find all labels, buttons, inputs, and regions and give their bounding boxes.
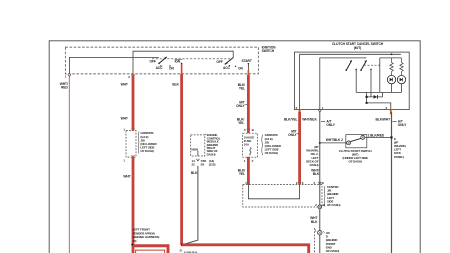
wire WHT/BLK through J/B xyxy=(319,185,321,253)
wire BLK/YEL lower xyxy=(238,157,249,185)
fuse bracket text (J/B) xyxy=(262,133,282,155)
svg-text:OF DASH): OF DASH) xyxy=(326,249,339,253)
harness note left of WHT/BLK xyxy=(306,145,325,185)
resistor rail left xyxy=(380,58,402,93)
svg-text:22: 22 xyxy=(192,162,196,166)
svg-text:DASH): DASH) xyxy=(207,152,216,156)
contact drops xyxy=(355,69,371,97)
svg-text:OF DASH): OF DASH) xyxy=(140,149,153,153)
wire BLK from ECM xyxy=(184,166,198,245)
in-line connector on WHT wire xyxy=(123,128,136,163)
junction at J/B exit xyxy=(310,203,325,224)
diode branch xyxy=(366,92,383,98)
cancel switch pin stubs xyxy=(296,106,391,115)
svg-text:BLK/WHT: BLK/WHT xyxy=(376,118,391,122)
center J/B internal jumper xyxy=(248,185,299,199)
svg-text:OF DASH): OF DASH) xyxy=(265,151,278,155)
pin 2 ignition (AM2) xyxy=(128,74,134,79)
svg-text:SWITCH: SWITCH xyxy=(262,49,275,53)
svg-text:WHT/BLK: WHT/BLK xyxy=(302,118,317,122)
splice D junction xyxy=(180,243,199,253)
svg-text:DASH): DASH) xyxy=(310,163,319,167)
pin ST stub xyxy=(247,70,249,76)
svg-text:OF DASH): OF DASH) xyxy=(327,203,340,207)
svg-text:BLK: BLK xyxy=(311,220,318,224)
cancel switch internal rail 1 xyxy=(300,53,401,109)
svg-text:OFF: OFF xyxy=(216,60,222,64)
ignition switch contact set 2 (ST) xyxy=(216,58,251,71)
cancel switch internal rail 2 xyxy=(320,58,367,110)
ECM pin rows xyxy=(191,159,216,175)
gauge fuse box xyxy=(243,128,258,163)
connector bracket text (J/B) xyxy=(138,131,157,153)
wire WHT/BLK (cancel sw) xyxy=(302,112,335,185)
wire BLK/RED to splice E xyxy=(365,133,392,137)
svg-text:1 BLK/RED: 1 BLK/RED xyxy=(368,133,385,137)
center J/B bracket text xyxy=(324,185,340,207)
svg-text:WHT/BLK 2: WHT/BLK 2 xyxy=(326,138,343,142)
splice E xyxy=(390,136,406,159)
wire AM1 bus inside ignition switch xyxy=(69,57,158,74)
svg-text:YEL: YEL xyxy=(239,86,245,90)
cancel switch blade 1 xyxy=(345,60,351,71)
resistor 2 xyxy=(400,58,403,75)
wire IG1 red (to bottom run) xyxy=(180,74,183,245)
svg-text:ONLY: ONLY xyxy=(398,123,407,127)
svg-text:NSW: NSW xyxy=(191,147,198,151)
svg-text:BLK: BLK xyxy=(313,172,320,176)
svg-text:WHT: WHT xyxy=(123,175,130,179)
svg-text:OF DASH): OF DASH) xyxy=(349,159,362,163)
svg-text:WHT: WHT xyxy=(121,83,128,87)
splice to clutch start switch xyxy=(319,138,347,144)
svg-text:E9: E9 xyxy=(201,162,205,166)
wire BLK/YEL (cancel sw) xyxy=(284,112,304,185)
svg-text:WHT: WHT xyxy=(121,117,128,121)
svg-text:ACC: ACC xyxy=(156,66,164,70)
svg-text:ON: ON xyxy=(238,67,243,71)
svg-text:(M/T): (M/T) xyxy=(354,46,361,50)
svg-text:(ENGINE HARNESS): (ENGINE HARNESS) xyxy=(133,235,160,239)
bottom red run to starter xyxy=(182,245,309,253)
center J/B box xyxy=(243,182,322,207)
svg-text:(D): (D) xyxy=(133,239,137,243)
wire BLK/WHT (cancel sw right) xyxy=(376,112,408,253)
ignition switch contact set 1 (ACC/IG1) xyxy=(150,57,183,71)
svg-text:PANEL): PANEL) xyxy=(394,155,404,159)
svg-text:ON: ON xyxy=(169,66,174,70)
svg-text:ACC: ACC xyxy=(223,66,231,70)
svg-text:RED: RED xyxy=(61,86,68,90)
cancel switch blade 2 xyxy=(360,60,366,71)
ignition switch gang linkage (dashed) xyxy=(152,58,231,60)
fender apron harness outline (red) xyxy=(131,228,168,253)
svg-text:ONLY: ONLY xyxy=(236,104,245,108)
svg-text:YEL: YEL xyxy=(239,172,245,176)
cancel switch linkage dashes xyxy=(364,64,382,66)
svg-text:ONLY: ONLY xyxy=(326,123,335,127)
pin 1 ignition (AM1) xyxy=(65,74,71,78)
engine control module box xyxy=(191,133,221,156)
wire BLK/YEL starter xyxy=(236,75,248,133)
LED 1 xyxy=(387,75,395,92)
LED 2 xyxy=(397,75,405,92)
svg-text:BLK/YEL: BLK/YEL xyxy=(284,118,297,122)
ignition switch box xyxy=(65,46,276,74)
wire WHT/RED xyxy=(60,78,70,253)
svg-text:(21S): (21S) xyxy=(209,162,216,166)
svg-text:OFF: OFF xyxy=(150,60,156,64)
svg-text:BLK: BLK xyxy=(172,82,179,86)
internal bus xyxy=(356,91,401,93)
resistor 1 xyxy=(390,58,393,75)
svg-text:ONLY: ONLY xyxy=(288,133,297,137)
svg-text:YEL: YEL xyxy=(238,121,244,125)
junction connector J/C xyxy=(315,228,340,253)
clutch start switch xyxy=(339,135,372,164)
pin IG1 stub xyxy=(172,64,181,87)
wire WHT (ignition feed) upper xyxy=(121,75,133,131)
wire AM2 bus inside ignition switch xyxy=(133,51,233,74)
path to pin 2 xyxy=(366,97,391,110)
svg-text:IGN: IGN xyxy=(175,59,181,63)
clutch start cancel switch box xyxy=(294,42,409,109)
wire WHT lower xyxy=(123,157,133,253)
svg-text:START: START xyxy=(242,59,252,63)
svg-text:BLK: BLK xyxy=(191,171,198,175)
